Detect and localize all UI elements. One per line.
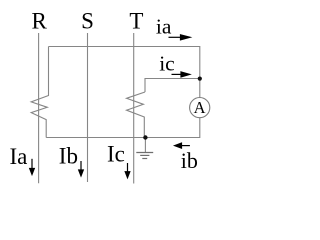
wire: ammeter bottom to bottom bus back to R resistor <box>46 118 200 138</box>
ground symbol bars <box>136 153 153 159</box>
svg-text:ib: ib <box>181 148 198 173</box>
arrow for ib (points left) <box>175 143 190 148</box>
arrow for ic (points right) <box>172 72 190 77</box>
ammeter U1 (circle) <box>190 98 210 118</box>
wire: phase R vertical conductor <box>38 33 40 183</box>
node: junction of bottom bus, T resistor and ground <box>143 135 147 139</box>
arrow for Ia (points down) <box>30 159 35 175</box>
svg-text:Ic: Ic <box>107 142 125 167</box>
svg-text:Ib: Ib <box>59 144 78 169</box>
svg-text:R: R <box>32 9 48 34</box>
wire: top bus (ia branch) from R resistor to right side, down to ammeter <box>49 47 200 98</box>
node: junction of ic line and right vertical <box>198 77 202 81</box>
svg-text:ic: ic <box>159 51 175 75</box>
arrow for ia (points right) <box>169 35 191 40</box>
wire: phase T vertical conductor <box>133 33 135 184</box>
svg-text:ia: ia <box>156 14 172 38</box>
wire: phase S vertical conductor <box>87 33 89 182</box>
wire: ic branch horizontal to right vertical <box>145 79 200 93</box>
arrow for Ib (points down) <box>79 161 84 176</box>
svg-text:T: T <box>129 9 143 34</box>
svg-text:A: A <box>194 98 206 117</box>
arrow for Ic (points down) <box>125 163 130 178</box>
resistor Rc (on T branch, zigzag) <box>127 92 146 138</box>
svg-text:Ia: Ia <box>10 144 28 169</box>
resistor Ra (on R branch, zigzag) <box>31 47 48 138</box>
svg-text:S: S <box>81 9 94 34</box>
ground stem <box>144 138 146 153</box>
